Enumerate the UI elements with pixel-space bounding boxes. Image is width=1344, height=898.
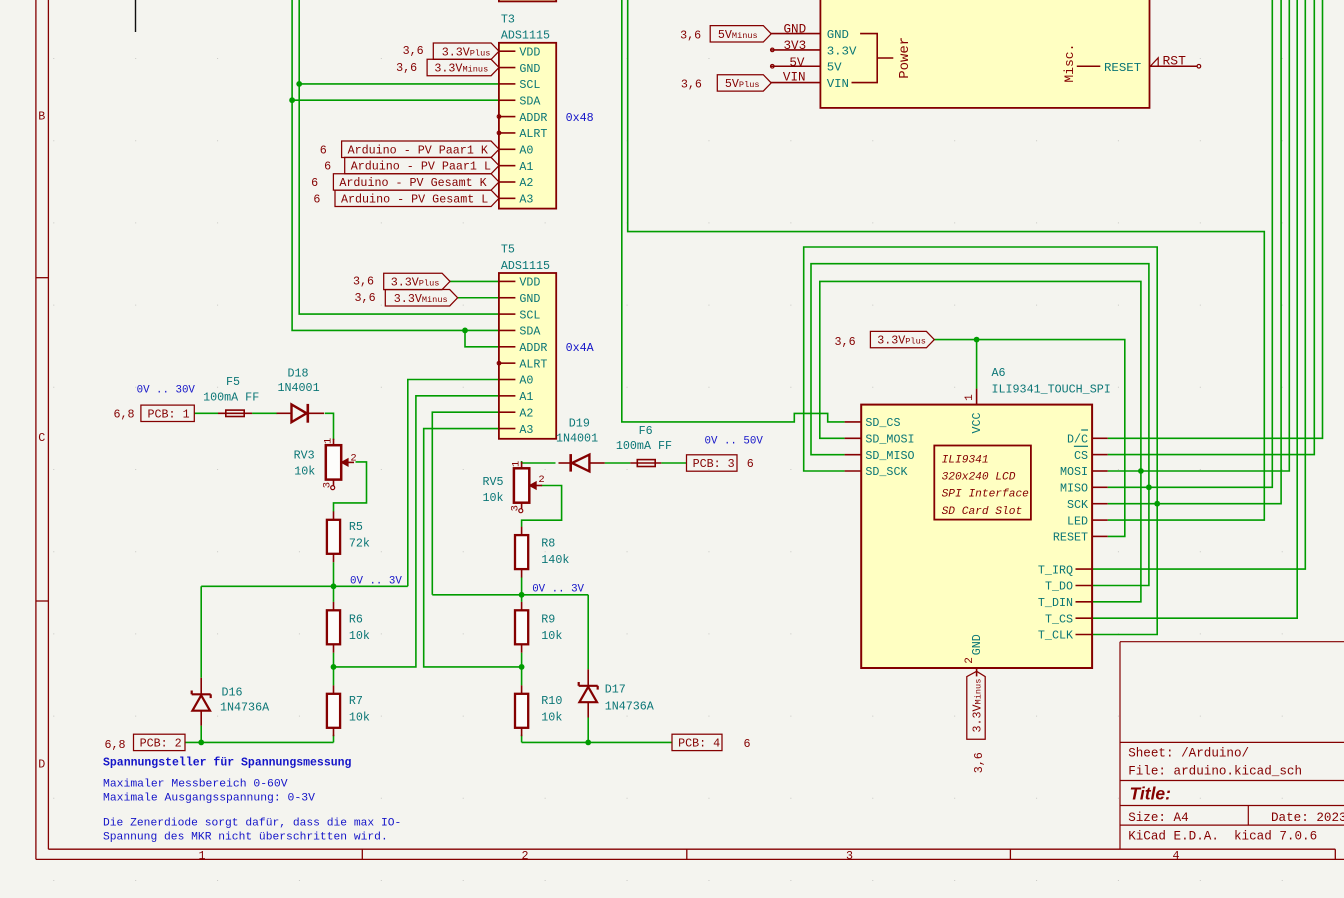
wire node to D16 cathode (200, 586, 202, 678)
svg-text:A0: A0 (519, 374, 533, 388)
svg-text:A3: A3 (519, 193, 533, 207)
MKR pin 3.3V (771, 49, 821, 51)
svg-text:1N4736A: 1N4736A (605, 700, 655, 714)
svg-text:A2: A2 (519, 176, 533, 190)
junction T3 SDA (289, 97, 295, 103)
resistor R9 10k (521, 602, 523, 610)
wire bottom rail PCB:4 (522, 741, 672, 743)
svg-text:6: 6 (313, 192, 320, 206)
T3 pin VDD (500, 50, 516, 52)
T5 pin SCL (500, 313, 516, 315)
wire divider2 top node horizontal (432, 594, 588, 596)
wire MISO pin row (1108, 0, 1273, 487)
svg-text:GND: GND (519, 62, 540, 76)
svg-text:R10: R10 (541, 694, 562, 708)
hierarchical label 3.3VMinus (T3 GND) (396, 59, 499, 75)
hierarchical label 5VPlus (MKR VIN) (681, 75, 771, 92)
wire PCB:1 to fuse F5 (194, 412, 218, 414)
T3 body (499, 43, 556, 209)
wire R6/R7 mid node to R7 (333, 667, 335, 686)
A6 pin SD_MOSI (845, 437, 862, 439)
svg-text:KiCad E.D.A. kicad 7.0.6: KiCad E.D.A. kicad 7.0.6 (1128, 830, 1317, 844)
wire F5 to D18 (252, 412, 277, 414)
svg-text:4: 4 (1172, 849, 1179, 863)
T5 body (499, 273, 556, 439)
svg-text:SCL: SCL (519, 78, 540, 92)
hierarchical label 3.3VPlus (A6 VCC) (835, 331, 935, 349)
T3 pin ADDR dangling circle (497, 115, 501, 119)
svg-text:100mA FF: 100mA FF (203, 390, 259, 404)
resistor R8 140k (521, 527, 523, 535)
T3 pin ALRT (500, 132, 516, 134)
hierarchical label 3.3VMinus (T5 GND) (355, 290, 458, 306)
svg-text:72k: 72k (349, 536, 370, 550)
svg-text:1: 1 (198, 849, 205, 863)
A6 pin MISO (1092, 486, 1108, 488)
svg-text:GND: GND (784, 23, 807, 37)
svg-text:1N4736A: 1N4736A (220, 701, 270, 715)
svg-text:0V .. 3V: 0V .. 3V (532, 584, 584, 596)
wire I2C SCL bus vertical to T3/T5 (299, 0, 499, 314)
svg-text:2: 2 (964, 657, 976, 664)
wire SD_MOSI / MOSI / T_DIN net (820, 281, 1141, 601)
zener diode D16 1N4736A (192, 678, 270, 726)
svg-text:ADS1115: ADS1115 (501, 29, 550, 43)
MKR pin 3.3V dangling circle (771, 48, 775, 52)
svg-text:PCB: 4: PCB: 4 (678, 737, 720, 751)
svg-text:D/C: D/C (1067, 433, 1088, 447)
junction SCK (1154, 501, 1160, 507)
MKR body (820, 0, 1149, 108)
svg-text:ADS1115: ADS1115 (501, 259, 550, 273)
svg-text:SDA: SDA (519, 325, 541, 339)
wire mid node to R10 (521, 667, 523, 686)
svg-text:R5: R5 (349, 520, 363, 534)
resistor R7 10k (333, 685, 335, 693)
svg-text:3: 3 (510, 505, 522, 511)
A6 info box (934, 446, 1031, 520)
junction D17 on rail (585, 740, 591, 746)
svg-text:1: 1 (511, 461, 523, 467)
svg-text:Power: Power (897, 37, 913, 79)
junction 3.3VPlus/VCC (974, 337, 980, 343)
svg-text:2: 2 (538, 474, 544, 486)
svg-text:PCB: 1: PCB: 1 (148, 408, 190, 422)
wire R8 bottom to node (521, 577, 523, 594)
wire SCK pin row (1108, 0, 1281, 504)
svg-text:ADDR: ADDR (519, 341, 547, 355)
wire T3 SDA (292, 99, 499, 101)
svg-text:SD_MISO: SD_MISO (865, 449, 914, 463)
hierarchical label 5VMinus (MKR GND) (680, 26, 771, 43)
A6 pin CS (1092, 454, 1108, 456)
svg-text:SD_SCK: SD_SCK (865, 465, 907, 479)
svg-text:VIN: VIN (827, 77, 849, 91)
svg-text:B: B (38, 110, 45, 124)
svg-text:6: 6 (747, 457, 754, 471)
resistor R5 72k (333, 511, 335, 519)
fuse F5 100mA FF (203, 375, 259, 416)
svg-text:T5: T5 (501, 243, 515, 257)
A6 body (861, 405, 1092, 668)
global label PCB: 1 (113, 405, 194, 422)
svg-text:6: 6 (324, 160, 331, 174)
wire R6 bottom to mid node (333, 653, 335, 667)
svg-text:Maximale Ausgangsspannung: 0-3: Maximale Ausgangsspannung: 0-3V (103, 793, 315, 805)
svg-text:F6: F6 (639, 424, 653, 438)
graphic line (black) (135, 0, 137, 32)
RESET active-low flag (1150, 58, 1158, 66)
misc bracket (1077, 65, 1101, 67)
A6 pin SCK (1092, 503, 1108, 505)
svg-text:RST: RST (1163, 54, 1187, 69)
T3 pin A0 (500, 148, 516, 150)
svg-text:SCL: SCL (519, 308, 540, 322)
svg-text:5V: 5V (789, 56, 805, 70)
wire D/C net (1108, 0, 1323, 438)
junction divider1 mid node (331, 664, 337, 670)
wire D19 cathode to RV5 pin1 (522, 461, 556, 463)
svg-text:10k: 10k (541, 711, 562, 725)
global label PCB: 4 (672, 734, 751, 751)
wire D19 anode to fuse F6 (605, 462, 631, 464)
svg-text:R7: R7 (349, 694, 363, 708)
svg-text:3,6: 3,6 (972, 752, 986, 773)
svg-text:PCB: 2: PCB: 2 (140, 737, 182, 751)
T5 pin SDA (500, 329, 516, 331)
svg-text:Die Zenerdiode sorgt dafür, da: Die Zenerdiode sorgt dafür, dass die max… (103, 817, 401, 829)
svg-text:Arduino - PV Gesamt L: Arduino - PV Gesamt L (341, 192, 488, 206)
svg-text:10k: 10k (483, 491, 504, 505)
junction D16 on rail (198, 740, 204, 746)
svg-text:File: arduino.kicad_sch: File: arduino.kicad_sch (1128, 765, 1302, 779)
T3 pin ALRT dangling circle (497, 131, 501, 135)
wire divider1 top node horizontal (201, 585, 408, 587)
A6 pin GND (2) (976, 668, 978, 676)
svg-text:A1: A1 (519, 390, 533, 404)
svg-text:0V .. 30V: 0V .. 30V (137, 385, 196, 397)
A6 pin SD_CS (845, 421, 862, 423)
title block (1120, 642, 1344, 850)
svg-text:MOSI: MOSI (1060, 465, 1088, 479)
display module A6 ILI9341_TOUCH_SPI (845, 366, 1111, 676)
power group bracket (852, 34, 878, 83)
junction MOSI (1138, 468, 1144, 474)
svg-text:RV5: RV5 (483, 475, 504, 489)
svg-text:ALRT: ALRT (519, 127, 547, 141)
svg-text:10k: 10k (541, 629, 562, 643)
svg-text:SDA: SDA (519, 94, 541, 108)
svg-text:RV3: RV3 (294, 448, 315, 462)
svg-text:Arduino - PV Paar1 K: Arduino - PV Paar1 K (348, 143, 488, 157)
svg-text:A2: A2 (519, 406, 533, 420)
svg-text:ADDR: ADDR (519, 111, 547, 125)
svg-text:D16: D16 (222, 686, 243, 700)
wire 3.3VPlus to ILI9341 VCC and RESET (934, 340, 1125, 537)
svg-text:Arduino - PV Paar1 L: Arduino - PV Paar1 L (351, 160, 491, 174)
global label PCB: 3 (687, 455, 754, 471)
svg-text:RESET: RESET (1104, 61, 1141, 75)
junction divider2 top node (519, 592, 525, 598)
wire T3 SCL (299, 83, 499, 85)
wire D18 to RV3 pin1 (325, 413, 334, 440)
op-amp/ADC T5 ADS1115 (497, 243, 556, 439)
svg-text:F5: F5 (226, 375, 240, 389)
svg-text:3,6: 3,6 (355, 291, 376, 305)
wire SD_SCK / SCK / T_CLK net (804, 247, 1157, 635)
svg-text:R6: R6 (349, 612, 363, 626)
svg-text:T_IRQ: T_IRQ (1038, 563, 1073, 577)
wire R10 bottom (521, 735, 523, 743)
svg-text:1: 1 (964, 394, 976, 401)
T3 pin A3 (500, 197, 516, 199)
svg-text:ILI9341_TOUCH_SPI: ILI9341_TOUCH_SPI (992, 382, 1111, 396)
wire bottom rail PCB:2 (185, 741, 334, 743)
svg-text:10k: 10k (294, 465, 315, 479)
svg-text:Title:: Title: (1130, 783, 1172, 803)
T3 pin SDA (500, 99, 516, 101)
svg-text:GND: GND (970, 634, 984, 655)
diode D18 1N4001 (277, 367, 324, 423)
svg-text:3: 3 (322, 482, 334, 488)
svg-text:100mA FF: 100mA FF (616, 439, 672, 453)
svg-text:6,8: 6,8 (104, 738, 125, 752)
svg-text:LED: LED (1067, 514, 1088, 528)
svg-text:D19: D19 (569, 416, 590, 430)
svg-text:6,8: 6,8 (113, 408, 134, 422)
svg-text:RESET: RESET (1053, 531, 1088, 545)
MKR pin VIN (771, 82, 821, 84)
svg-text:5V: 5V (827, 61, 842, 75)
svg-text:Spannungsteller für Spannungsm: Spannungsteller für Spannungsmessung (103, 756, 352, 769)
junction T5 SDA/ADDR (462, 328, 468, 334)
wire R5 to node 0V..3V (333, 562, 335, 586)
RESET dangling circle (1197, 64, 1201, 68)
diode D19 1N4001 (556, 416, 605, 471)
svg-text:GND: GND (519, 292, 540, 306)
wire T_CS net (1092, 0, 1298, 618)
wire R7 bottom (333, 735, 335, 743)
svg-text:R8: R8 (541, 537, 555, 551)
svg-text:C: C (38, 431, 45, 445)
svg-text:2: 2 (521, 849, 528, 863)
svg-text:5VPlus: 5VPlus (725, 77, 760, 91)
A6 pin VCC (1) (976, 389, 978, 405)
global label Arduino - PV Paar1 L (324, 157, 499, 173)
wire RV3 wiper to R5 (334, 462, 367, 512)
svg-text:Arduino - PV Gesamt K: Arduino - PV Gesamt K (339, 176, 486, 190)
A6 pin SD_SCK (845, 470, 862, 472)
wire T5 ADDR branch (465, 330, 499, 346)
svg-text:Size: A4: Size: A4 (1128, 811, 1188, 825)
resistor R10 10k (521, 685, 523, 693)
T5 pin ALRT (500, 362, 516, 364)
T3 pin ADDR (500, 116, 516, 118)
fuse F6 100mA FF (616, 424, 672, 467)
wire SD_CS from top vertical (622, 0, 845, 422)
wire T5 A1 to divider 1 mid node (334, 396, 500, 667)
op-amp/ADC T3 ADS1115 (497, 13, 556, 209)
svg-text:3.3VMinus: 3.3VMinus (394, 292, 448, 306)
svg-text:6: 6 (744, 737, 751, 751)
wire T5 GND label (458, 297, 499, 299)
svg-text:ILI9341: ILI9341 (942, 454, 989, 466)
T5 pin GND (500, 297, 516, 299)
svg-text:1N4001: 1N4001 (556, 432, 598, 446)
svg-text:Sheet: /Arduino/: Sheet: /Arduino/ (1128, 747, 1249, 761)
svg-text:A0: A0 (519, 144, 533, 158)
svg-text:3.3VMinus: 3.3VMinus (434, 62, 488, 76)
hierarchical label 3.3VPlus (T5 VDD) (353, 273, 450, 289)
svg-text:VDD: VDD (519, 45, 540, 59)
wire R8/R9 node (521, 595, 523, 602)
A6 pin SD_MISO (845, 454, 862, 456)
svg-text:SD_MOSI: SD_MOSI (865, 433, 914, 447)
hierarchical label 3.3VPlus (T3 VDD) (403, 43, 499, 59)
svg-text:1N4001: 1N4001 (278, 381, 320, 395)
wire LED net from top (628, 0, 1265, 520)
svg-text:SD_CS: SD_CS (865, 416, 900, 430)
svg-text:D18: D18 (288, 367, 309, 381)
potentiometer RV5 10k (483, 461, 545, 513)
svg-text:3.3VPlus: 3.3VPlus (391, 276, 440, 290)
wire R5/R6 node (333, 586, 335, 602)
svg-text:VCC: VCC (970, 412, 984, 433)
hierarchical label 3.3VMinus (A6 GND, vertical) (967, 671, 986, 773)
T3 pin SCL (500, 83, 516, 85)
MKR pin 5V dangling circle (771, 64, 775, 68)
wire T_IRQ net (1092, 0, 1306, 569)
A6 pin RESET (1092, 535, 1108, 537)
wire T5 A2 to divider 2 top node (432, 412, 499, 595)
global label Arduino - PV Gesamt K (311, 174, 499, 190)
wire T5 VDD label (450, 280, 499, 282)
svg-text:10k: 10k (349, 711, 370, 725)
svg-text:320x240 LCD: 320x240 LCD (942, 471, 1016, 483)
wire D17 anode to rail (587, 718, 589, 743)
wire CS net (1108, 0, 1315, 455)
T5 pin VDD (500, 280, 516, 282)
wire T5 A3 to divider 2 mid node (424, 429, 522, 667)
wire T5 A0 to divider 1 top node (408, 380, 499, 587)
svg-text:D17: D17 (605, 683, 626, 697)
A6 pin T_CLK (1076, 634, 1092, 636)
svg-text:CS: CS (1074, 449, 1088, 463)
wire VCC drop (976, 340, 978, 389)
svg-text:3,6: 3,6 (403, 44, 424, 58)
svg-text:T_DO: T_DO (1045, 580, 1073, 594)
wire I2C SDA bus vertical to T3/T5 (292, 0, 499, 330)
svg-text:A3: A3 (519, 423, 533, 437)
junction MISO (1146, 484, 1152, 490)
wire R9 bottom to mid node (521, 653, 523, 667)
T3 pin A1 (500, 165, 516, 167)
T5 pin ADDR (500, 346, 516, 348)
svg-text:3.3VPlus: 3.3VPlus (877, 334, 926, 348)
svg-text:Date: 2023-06-1: Date: 2023-06-1 (1271, 811, 1344, 825)
A6 pin LED (1092, 519, 1108, 521)
svg-text:6: 6 (311, 176, 318, 190)
svg-text:3,6: 3,6 (396, 61, 417, 75)
svg-text:Misc.: Misc. (1062, 44, 1077, 83)
global label Arduino - PV Paar1 K (320, 141, 499, 157)
svg-text:3,6: 3,6 (681, 78, 702, 92)
potentiometer RV3 10k (294, 438, 357, 490)
A6 pin D/C (1092, 437, 1108, 439)
junction T3 SCL (296, 81, 302, 87)
svg-text:140k: 140k (541, 553, 569, 567)
component T1 ADS1115 (partial, top edge) (499, 0, 556, 1)
A6 pin T_CS (1076, 617, 1092, 619)
svg-text:T_DIN: T_DIN (1038, 596, 1073, 610)
svg-text:T3: T3 (501, 13, 515, 27)
svg-text:Maximaler Messbereich 0-60V: Maximaler Messbereich 0-60V (103, 778, 288, 790)
svg-text:3.3VPlus: 3.3VPlus (442, 45, 491, 59)
svg-text:VDD: VDD (519, 276, 540, 290)
svg-text:3,6: 3,6 (835, 335, 856, 349)
MKR pin GND (771, 33, 821, 35)
svg-text:0x4A: 0x4A (566, 341, 595, 355)
svg-text:R9: R9 (541, 612, 555, 626)
T5 pin ALRT dangling circle (497, 361, 501, 365)
svg-text:3: 3 (846, 849, 853, 863)
junction divider2 mid node (519, 664, 525, 670)
T5 pin A2 (500, 411, 516, 413)
T5 pin A3 (500, 428, 516, 430)
svg-text:A6: A6 (992, 366, 1006, 380)
svg-text:SCK: SCK (1067, 498, 1088, 512)
svg-text:ALRT: ALRT (519, 357, 547, 371)
svg-text:3,6: 3,6 (353, 275, 374, 289)
svg-text:3.3VMinus: 3.3VMinus (971, 679, 985, 733)
svg-text:Spannung des MKR nicht übersch: Spannung des MKR nicht überschritten wir… (103, 832, 388, 844)
svg-text:GND: GND (827, 28, 849, 42)
T3 pin GND (500, 67, 516, 69)
A6 pin T_DIN (1076, 601, 1092, 603)
svg-text:1: 1 (323, 438, 335, 444)
A6 pin T_IRQ (1076, 568, 1092, 570)
T5 pin A1 (500, 395, 516, 397)
svg-text:0x48: 0x48 (566, 111, 594, 125)
svg-text:A1: A1 (519, 160, 533, 174)
wire F6 to PCB:3 (661, 462, 686, 464)
svg-text:6: 6 (320, 143, 327, 157)
wire SD_MISO / MISO / T_DO net (811, 264, 1149, 586)
svg-text:VIN: VIN (783, 70, 806, 84)
junction divider1 top node (331, 583, 337, 589)
T5 pin A0 (500, 379, 516, 381)
svg-text:10k: 10k (349, 629, 370, 643)
wire node to D17 cathode (587, 595, 589, 670)
svg-text:3V3: 3V3 (784, 39, 807, 53)
global label PCB: 2 (104, 734, 185, 752)
svg-text:2: 2 (350, 452, 356, 464)
svg-text:3.3V: 3.3V (827, 44, 857, 58)
wire D16 anode to rail (200, 726, 202, 743)
svg-text:SD Card Slot: SD Card Slot (942, 506, 1023, 518)
A6 pin T_DO (1076, 585, 1092, 587)
global label Arduino - PV Gesamt L (313, 190, 499, 206)
svg-text:0V .. 50V: 0V .. 50V (705, 436, 764, 448)
resistor R6 10k (333, 602, 335, 610)
svg-text:3,6: 3,6 (680, 28, 701, 42)
module Arduino MKR (partial, top) (771, 0, 1201, 108)
T3 pin A2 (500, 181, 516, 183)
svg-text:PCB: 3: PCB: 3 (693, 457, 735, 471)
svg-text:T_CS: T_CS (1045, 612, 1073, 626)
wire RV5 wiper to R8 (522, 486, 562, 527)
svg-text:T_CLK: T_CLK (1038, 629, 1073, 643)
